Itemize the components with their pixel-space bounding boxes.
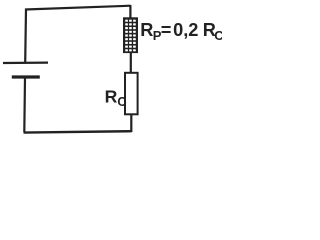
svg-text:0,2: 0,2 bbox=[173, 20, 198, 40]
svg-text:C: C bbox=[214, 28, 222, 43]
wire right top bbox=[129, 5, 131, 19]
resistor RC bbox=[125, 73, 138, 115]
resistor RP bbox=[123, 17, 138, 53]
wire top bbox=[25, 6, 131, 10]
label RP = 0,2 RC bbox=[140, 20, 224, 43]
wire left lower bbox=[23, 78, 26, 133]
wire left upper bbox=[24, 9, 27, 63]
svg-text:RC: RC bbox=[105, 86, 127, 109]
wire below RC bbox=[130, 114, 132, 132]
battery B1 bbox=[3, 63, 48, 77]
svg-text:=: = bbox=[161, 20, 172, 40]
svg-text:R: R bbox=[140, 20, 153, 40]
wire bottom bbox=[24, 131, 132, 132]
wire between RP and RC bbox=[130, 52, 132, 73]
